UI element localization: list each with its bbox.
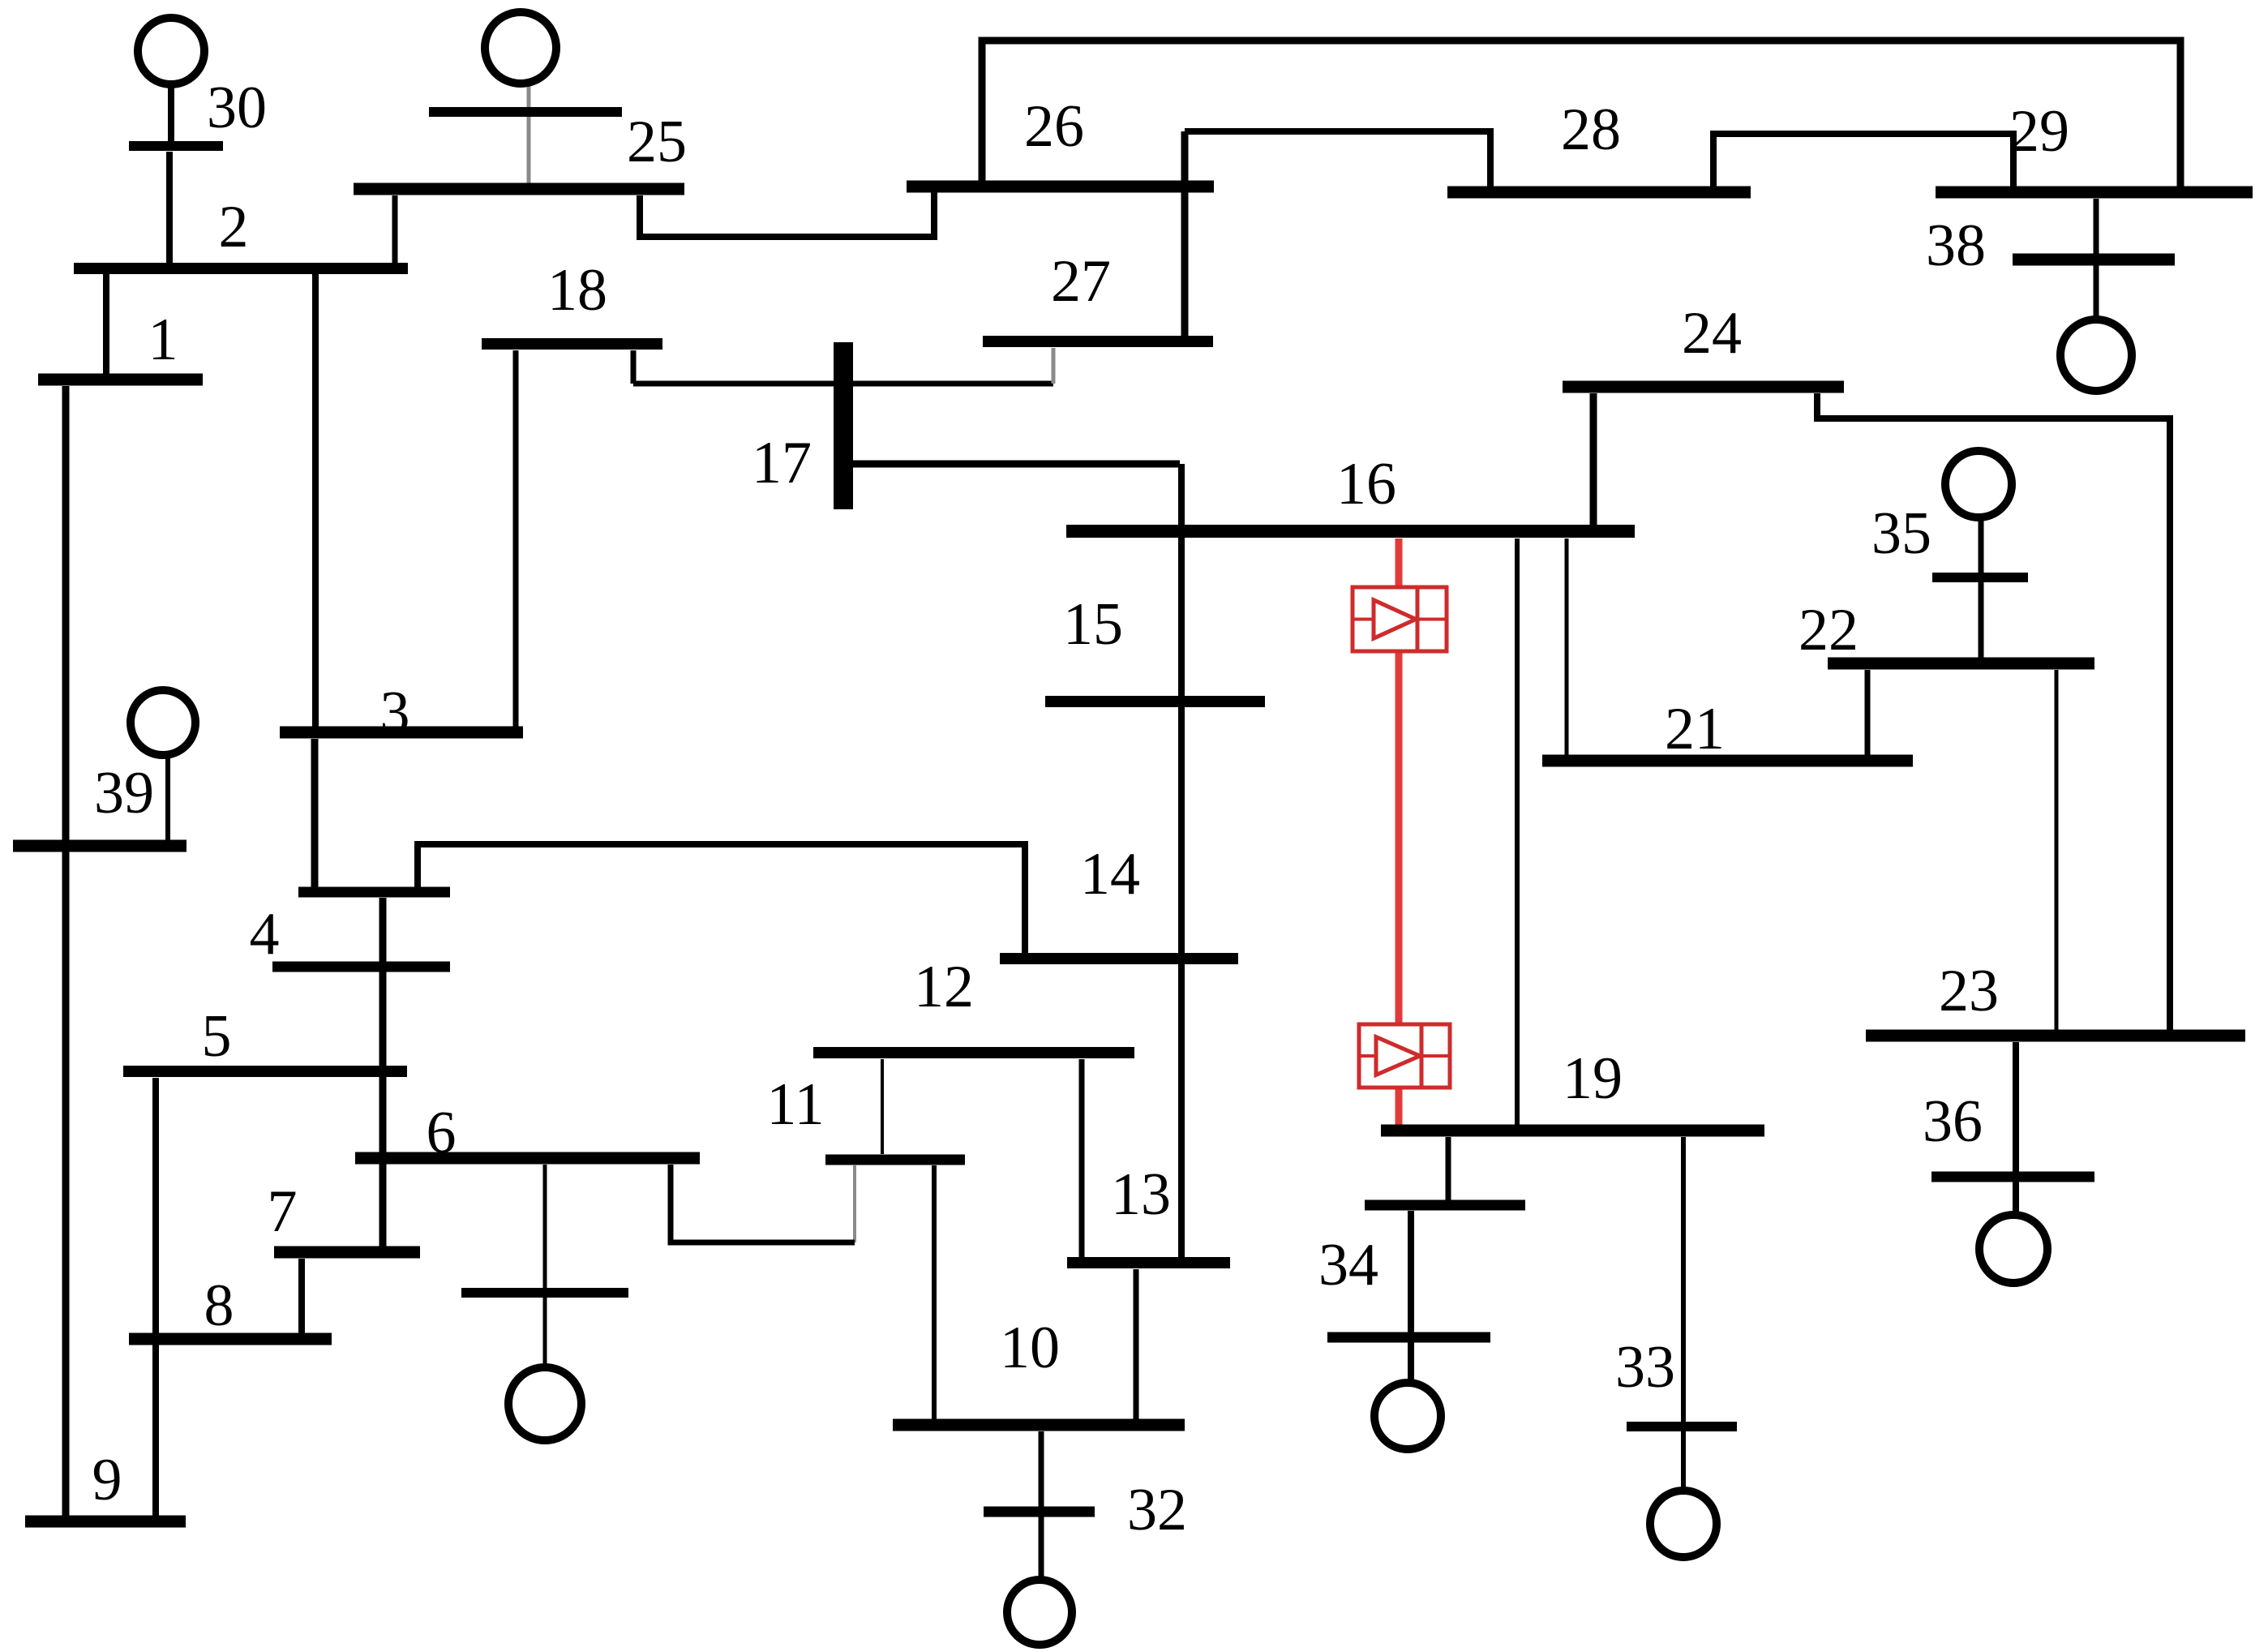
svg-text:2: 2 (219, 194, 249, 260)
svg-text:19: 19 (1563, 1045, 1623, 1112)
svg-text:8: 8 (204, 1272, 234, 1339)
svg-text:5: 5 (202, 1003, 232, 1070)
svg-text:3: 3 (380, 680, 410, 746)
svg-text:16: 16 (1336, 451, 1396, 517)
svg-text:9: 9 (92, 1447, 122, 1513)
svg-text:18: 18 (547, 257, 607, 324)
svg-text:26: 26 (1024, 93, 1084, 160)
svg-text:13: 13 (1111, 1161, 1171, 1228)
svg-text:4: 4 (250, 901, 280, 968)
svg-text:23: 23 (1939, 958, 1999, 1024)
svg-text:21: 21 (1665, 696, 1725, 762)
svg-text:22: 22 (1799, 597, 1859, 663)
svg-text:38: 38 (1926, 212, 1986, 279)
svg-text:11: 11 (766, 1071, 824, 1138)
svg-text:10: 10 (1000, 1315, 1060, 1381)
svg-text:25: 25 (627, 109, 687, 175)
svg-text:29: 29 (2009, 98, 2069, 165)
svg-text:35: 35 (1871, 500, 1931, 567)
svg-text:12: 12 (914, 954, 974, 1020)
svg-text:7: 7 (268, 1178, 298, 1245)
svg-text:15: 15 (1063, 591, 1123, 658)
svg-text:30: 30 (207, 75, 267, 141)
svg-text:28: 28 (1561, 97, 1621, 163)
svg-text:17: 17 (752, 430, 812, 496)
svg-text:33: 33 (1615, 1334, 1675, 1401)
svg-text:36: 36 (1923, 1088, 1983, 1155)
svg-text:27: 27 (1051, 248, 1111, 315)
svg-text:14: 14 (1080, 841, 1140, 908)
svg-text:32: 32 (1127, 1477, 1187, 1543)
svg-text:6: 6 (427, 1100, 457, 1166)
svg-text:24: 24 (1682, 300, 1742, 367)
svg-text:34: 34 (1318, 1232, 1378, 1298)
svg-text:1: 1 (148, 307, 178, 373)
svg-text:39: 39 (94, 760, 154, 826)
